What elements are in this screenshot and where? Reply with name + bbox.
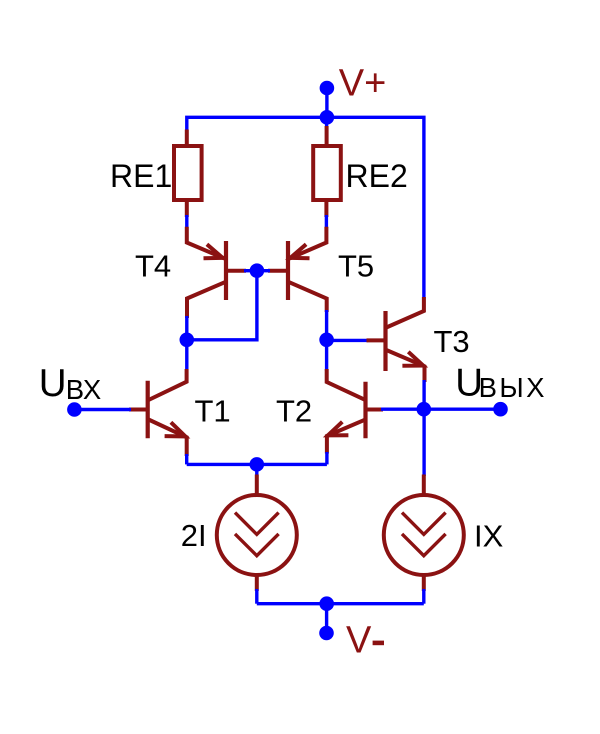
current source 2I	[217, 475, 297, 592]
wire T3 emitter down through output node to IX	[422, 380, 425, 476]
svg-text:T1: T1	[195, 393, 231, 428]
wire node to 2I source	[255, 464, 258, 476]
svg-text:V: V	[346, 620, 372, 662]
transistor T4	[187, 227, 246, 318]
svg-text:ВХ: ВХ	[66, 374, 101, 405]
node T5 collector junction	[319, 333, 334, 348]
node V+ terminal	[320, 81, 335, 96]
svg-text:T5: T5	[338, 249, 374, 284]
wire V- stub	[325, 604, 328, 633]
wire top rail	[187, 117, 424, 298]
resistor RE2	[313, 126, 341, 217]
wire T5 collector node to T3 base	[327, 339, 368, 342]
node output junction	[417, 402, 432, 417]
wire T2 emitter drop	[325, 452, 328, 464]
wire 2I bottom drop	[255, 589, 258, 604]
node V- rail junction	[319, 596, 334, 611]
wire IX bottom drop	[422, 589, 425, 604]
wire T2 base to output node and terminal	[381, 408, 501, 411]
wire T4 base to node	[244, 269, 257, 272]
transistor T5	[268, 227, 327, 312]
svg-text:ВЫХ: ВЫХ	[479, 372, 547, 403]
transistor T1	[129, 369, 187, 456]
wire V+ stub	[325, 88, 328, 117]
wire base node down and left to T4 collector	[187, 271, 257, 340]
wire T5 base to node	[257, 269, 270, 272]
node output terminal	[493, 402, 508, 417]
current source IX	[384, 475, 464, 592]
transistor T3	[367, 297, 425, 382]
wire RE2 to T5 emitter	[325, 215, 328, 228]
svg-text:T3: T3	[434, 324, 470, 359]
wire emitter rail	[187, 463, 327, 466]
wire input to T1 base	[74, 408, 131, 411]
transistor T2	[327, 369, 383, 454]
wire RE1 to T4 emitter	[185, 215, 188, 228]
node V+ rail junction	[320, 110, 335, 125]
svg-text:U: U	[39, 362, 67, 405]
node V- terminal	[319, 626, 334, 641]
node T4 collector junction	[180, 333, 195, 348]
node base of T4 T5	[250, 263, 265, 278]
svg-text:T2: T2	[276, 393, 312, 428]
svg-text:RE2: RE2	[346, 158, 408, 194]
svg-text:2I: 2I	[181, 518, 207, 553]
wire RE2 top stub	[325, 117, 328, 130]
svg-text:IX: IX	[474, 518, 504, 553]
resistor RE1	[174, 130, 202, 218]
node input terminal	[67, 402, 82, 417]
svg-text:RE1: RE1	[110, 158, 172, 194]
wire right vertical T5 collector to T2 collector	[325, 310, 328, 371]
wire left vertical T4 collector to T1 collector	[185, 316, 188, 369]
svg-text:T4: T4	[135, 249, 171, 284]
wire T1 emitter drop	[185, 454, 188, 464]
wire bottom rail	[257, 602, 424, 605]
svg-text:V+: V+	[339, 63, 387, 105]
node emitter rail center	[249, 457, 264, 472]
